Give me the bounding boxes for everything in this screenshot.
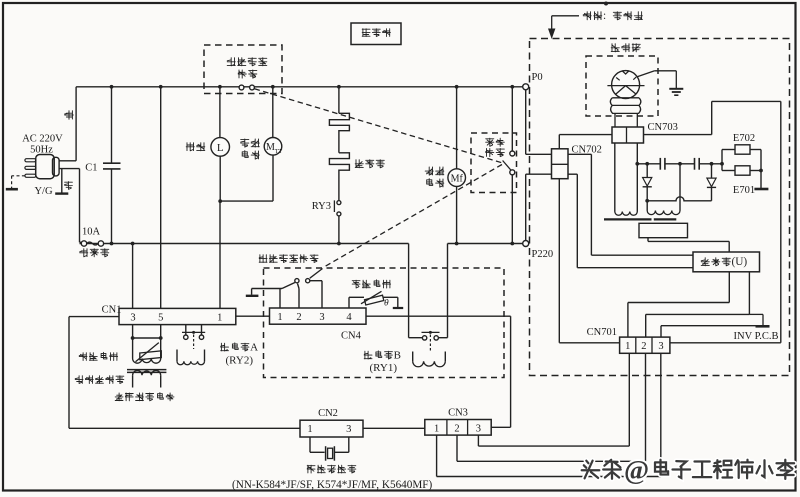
primary interlock contacts bbox=[239, 85, 254, 90]
svg-text:CN2: CN2 bbox=[318, 408, 338, 419]
heater element 加热器 bbox=[329, 113, 349, 200]
note callout 注意:高压区 bbox=[549, 10, 643, 37]
wire CN702 to CN703 bbox=[559, 135, 612, 149]
label 磁控管 bbox=[611, 44, 640, 52]
capacitor C2 bbox=[660, 158, 665, 170]
thermistor ground bbox=[393, 297, 403, 308]
magnetron filament bbox=[610, 98, 641, 127]
label RY3 bbox=[312, 201, 331, 212]
svg-text:3: 3 bbox=[346, 424, 351, 435]
short switch contacts bbox=[503, 151, 515, 175]
connector CN1 bbox=[119, 308, 236, 324]
wire CN1 to CN2 loop bbox=[69, 317, 300, 429]
svg-text:CN701: CN701 bbox=[587, 327, 617, 338]
E ground bbox=[754, 171, 768, 190]
svg-text:@: @ bbox=[624, 455, 649, 485]
label CN4 bbox=[341, 331, 362, 342]
primary interlock switch box bbox=[204, 45, 282, 94]
capacitor C3 bbox=[695, 158, 700, 170]
svg-text:50Hz: 50Hz bbox=[30, 145, 53, 156]
svg-text:AC 220V: AC 220V bbox=[22, 134, 63, 145]
svg-text:1: 1 bbox=[307, 424, 312, 435]
diode D1 bbox=[643, 164, 652, 201]
diode D2 bbox=[707, 164, 716, 201]
earth ground (plug) bbox=[6, 176, 25, 189]
label 风扇电机 bbox=[425, 167, 444, 187]
chassis ground (switch) bbox=[246, 289, 259, 296]
wire primary to inverter bbox=[648, 238, 729, 252]
wire P0 to CN702 bbox=[526, 90, 552, 155]
wire CN701 pin2 down bbox=[457, 353, 646, 461]
svg-text:3: 3 bbox=[476, 423, 481, 434]
svg-text::: : bbox=[603, 10, 606, 22]
label CN701 bbox=[587, 327, 617, 338]
label C1 bbox=[85, 163, 97, 174]
motor join wire bbox=[220, 155, 273, 201]
svg-text:3: 3 bbox=[319, 312, 324, 323]
model list text bbox=[232, 479, 433, 491]
label INV P.C.B bbox=[734, 331, 779, 342]
svg-text:2: 2 bbox=[641, 341, 646, 352]
label 10A bbox=[82, 227, 101, 238]
plug earth branch bbox=[55, 169, 68, 194]
wire CN701 pin3 ground bbox=[661, 326, 763, 337]
svg-text:A: A bbox=[250, 341, 258, 353]
label blue 蓝 bbox=[65, 111, 74, 120]
top rail wire bbox=[76, 85, 522, 89]
label 加热器 bbox=[355, 160, 384, 168]
label CN3 bbox=[448, 408, 468, 419]
svg-text:RY3: RY3 bbox=[312, 201, 331, 212]
svg-text:10A: 10A bbox=[82, 227, 101, 238]
secondary interlock contacts bbox=[295, 269, 323, 283]
wire CN1 to CN4 bbox=[236, 315, 270, 317]
label 次级碰锁开关 bbox=[259, 255, 318, 263]
relay B contact wires bbox=[409, 244, 448, 338]
label 转盘电机 bbox=[241, 139, 260, 159]
connector CN701 bbox=[620, 337, 670, 353]
terminal P0 bbox=[523, 72, 543, 90]
svg-text:4: 4 bbox=[346, 312, 352, 323]
wire CN702 to inverter upper bbox=[568, 154, 693, 255]
frame mark dot bbox=[604, 2, 608, 6]
secondary interlock box bbox=[264, 268, 505, 378]
LV transformer T1 bbox=[127, 359, 166, 388]
svg-text:(RY2): (RY2) bbox=[226, 354, 254, 366]
label box 新高压 bbox=[351, 23, 401, 45]
wire inverter to CN701 pin2 bbox=[646, 272, 750, 337]
label E701 bbox=[733, 185, 755, 196]
svg-text:B: B bbox=[394, 349, 401, 361]
label CN1 bbox=[102, 305, 122, 316]
svg-text:2: 2 bbox=[454, 423, 459, 434]
terminal P220 bbox=[523, 241, 553, 261]
lamp lower wire bbox=[218, 156, 222, 203]
secondary switch wires bbox=[252, 281, 322, 308]
svg-text:P220: P220 bbox=[532, 249, 554, 260]
svg-text:1: 1 bbox=[217, 312, 222, 323]
svg-text:1: 1 bbox=[625, 341, 630, 352]
component E701 bbox=[735, 166, 750, 175]
bottom rail wire left bbox=[80, 242, 409, 246]
svg-text:3: 3 bbox=[130, 312, 135, 323]
label brown 棕 bbox=[65, 182, 73, 190]
interlock linkage wire D1 bbox=[255, 89, 503, 163]
relay contact RY3 bbox=[334, 200, 341, 216]
watermark bbox=[582, 455, 794, 485]
connector CN703 bbox=[612, 127, 644, 143]
component E702 bbox=[735, 145, 750, 154]
turntable motor wire bbox=[272, 87, 274, 138]
short switch bottom wire bbox=[511, 175, 513, 244]
HV transformer primary box bbox=[639, 223, 688, 237]
svg-text:E702: E702 bbox=[733, 133, 755, 144]
svg-text:(U): (U) bbox=[732, 256, 748, 268]
label θ bbox=[384, 299, 389, 309]
label CN702 bbox=[572, 145, 602, 156]
label AC 220V 50Hz bbox=[22, 134, 63, 156]
inverter box 变频器(U) bbox=[693, 252, 760, 272]
svg-text:5: 5 bbox=[158, 312, 163, 323]
label E702 bbox=[733, 133, 755, 144]
relay B contacts bbox=[422, 331, 440, 340]
svg-text:M: M bbox=[266, 142, 275, 153]
svg-text:E701: E701 bbox=[733, 185, 755, 196]
label CN703 bbox=[648, 122, 678, 133]
lamp L wire bbox=[219, 87, 221, 138]
svg-text:CN3: CN3 bbox=[448, 408, 468, 419]
svg-text:(RY1): (RY1) bbox=[370, 362, 398, 374]
svg-text:1: 1 bbox=[277, 312, 282, 323]
turntable motor MTT bbox=[264, 138, 282, 156]
relay A coil RY2 bbox=[177, 335, 205, 365]
wire CN2 to CN3 bbox=[363, 427, 425, 429]
varistor RV 压敏电阻 bbox=[136, 343, 162, 362]
label 初级碰锁开关 bbox=[227, 58, 267, 78]
wire lamp node to CN1 pin1 bbox=[219, 201, 221, 308]
plug P1 AC inlet bbox=[25, 155, 59, 179]
label 继电器A bbox=[221, 341, 258, 366]
relay A contacts bbox=[182, 325, 205, 340]
transformer core bars bbox=[604, 218, 676, 220]
label 蒸汽感应器 bbox=[307, 465, 356, 473]
magnetron dashed box bbox=[586, 56, 658, 116]
svg-text:TT: TT bbox=[275, 149, 283, 155]
svg-text:3: 3 bbox=[658, 341, 663, 352]
wire brown riser bbox=[59, 169, 82, 243]
wire CN4 to CN3 bbox=[366, 316, 511, 427]
short switch top wire bbox=[511, 87, 513, 151]
wire CN702 to inverter lower bbox=[568, 174, 693, 268]
connector CN2 bbox=[300, 420, 363, 437]
label 短路开关 bbox=[486, 138, 505, 156]
HV transformer T2 secondary bbox=[615, 143, 638, 215]
wire inverter to CN701 pin1 bbox=[628, 272, 729, 337]
filament winding bbox=[645, 164, 680, 215]
svg-text:2: 2 bbox=[296, 312, 301, 323]
wire E-bus bbox=[722, 150, 763, 173]
bottom rail wire right bbox=[448, 242, 523, 246]
svg-text:P0: P0 bbox=[532, 72, 543, 83]
wire rail to CN1 pin3 bbox=[132, 244, 134, 309]
magnetron case ground bbox=[637, 71, 683, 95]
heater top wire bbox=[338, 87, 340, 114]
capacitor C1 bbox=[103, 87, 121, 244]
svg-text:CN703: CN703 bbox=[648, 122, 678, 133]
INV PCB ground bbox=[749, 314, 769, 326]
fan motor bottom wire bbox=[456, 186, 458, 243]
label 压敏电阻 bbox=[79, 352, 117, 360]
heater bottom wire bbox=[338, 216, 340, 244]
svg-text:CN4: CN4 bbox=[341, 331, 362, 342]
label 炉灯 bbox=[186, 143, 205, 151]
thermistor RT bbox=[361, 291, 384, 305]
wire CN701 pin1 down bbox=[478, 353, 629, 446]
wire CN701 pin3 down bbox=[437, 353, 661, 476]
relay B coil RY1 bbox=[413, 335, 446, 367]
thermistor wire bbox=[349, 297, 398, 308]
svg-text:C1: C1 bbox=[85, 163, 97, 174]
svg-text:1: 1 bbox=[434, 423, 439, 434]
label Y/G bbox=[34, 186, 53, 197]
connector CN3 bbox=[425, 420, 491, 436]
CN1 pin3 pin5 stubs bbox=[131, 325, 163, 359]
high-voltage zone dashed box bbox=[530, 39, 790, 376]
label 热敏电阻 bbox=[352, 280, 390, 288]
oven lamp L bbox=[211, 138, 230, 157]
interlock linkage wire D2 bbox=[324, 165, 502, 267]
steam sensor 蒸汽感应器 bbox=[310, 437, 349, 461]
svg-text:Y/G: Y/G bbox=[34, 186, 53, 197]
short-circuit switch box bbox=[471, 133, 517, 193]
connector CN702 bbox=[552, 149, 569, 179]
fan motor top wire bbox=[456, 87, 458, 169]
label 继电器B bbox=[364, 349, 401, 374]
svg-text:(NN-K584*JF/SF, K574*JF/MF, K5: (NN-K584*JF/SF, K574*JF/MF, K5640MF) bbox=[232, 479, 433, 491]
wire D2 to winding with hop bbox=[647, 197, 711, 201]
wire CN702 to CN701 bbox=[559, 179, 619, 343]
wire rail to CN1 pin5 bbox=[160, 87, 162, 309]
label 低压变压器 bbox=[75, 376, 124, 384]
wire CN703 to INV loop bbox=[644, 101, 781, 342]
label CN2 bbox=[318, 408, 338, 419]
svg-text:INV P.C.B: INV P.C.B bbox=[734, 331, 779, 342]
wire P220 to CN702 bbox=[526, 174, 552, 240]
connector CN4 bbox=[270, 308, 367, 324]
fan motor Mf bbox=[448, 169, 466, 187]
fuse F1 10A bbox=[81, 241, 103, 246]
svg-text:CN1: CN1 bbox=[102, 305, 122, 316]
svg-text:L: L bbox=[217, 142, 224, 154]
label 熔断器 bbox=[80, 249, 109, 257]
svg-text:Mf: Mf bbox=[451, 173, 464, 184]
wire blue riser bbox=[59, 87, 76, 161]
wire chain bbox=[635, 162, 724, 166]
svg-text:θ: θ bbox=[384, 299, 389, 309]
magnetron V1 bbox=[607, 71, 644, 99]
label 微处理器电路 bbox=[115, 393, 174, 401]
